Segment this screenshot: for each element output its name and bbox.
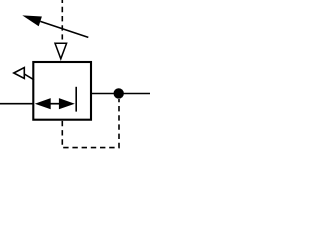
adjustment arrow shaft (diagonal) <box>40 21 88 37</box>
pilot actuator hollow triangle on top of body <box>55 43 67 59</box>
flow path double-headed arrow inside body <box>35 98 75 109</box>
wire: pilot feedback line (dashed, from body bottom to junction) <box>62 99 119 148</box>
valve seat bar inside body <box>75 87 77 112</box>
relief vent link line to body <box>24 74 34 80</box>
wire: output port line (right) <box>90 93 150 95</box>
adjustment arrow filled head <box>22 15 42 26</box>
wire: pilot control line top (dashed vertical) <box>61 0 63 40</box>
wire: input port line (left) <box>0 103 34 105</box>
relief vent open arrowhead (left of body) <box>14 68 24 79</box>
pressure regulator body (valve box) <box>33 62 91 120</box>
junction node on output line <box>114 88 124 98</box>
